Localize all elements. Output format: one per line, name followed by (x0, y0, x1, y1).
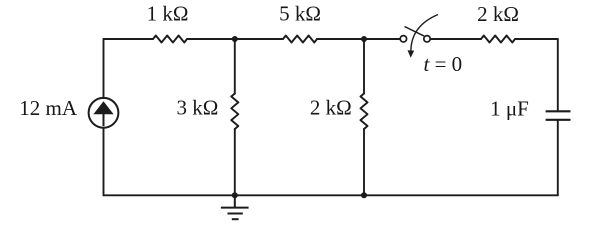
svg-text:12 mA: 12 mA (19, 96, 78, 120)
svg-text:1 kΩ: 1 kΩ (147, 2, 189, 26)
svg-text:1 μF: 1 μF (490, 97, 529, 121)
svg-text:2 kΩ: 2 kΩ (310, 96, 352, 120)
svg-text:3 kΩ: 3 kΩ (176, 96, 218, 120)
svg-text:5 kΩ: 5 kΩ (279, 1, 321, 25)
svg-text:t = 0: t = 0 (424, 52, 463, 76)
svg-text:2 kΩ: 2 kΩ (477, 2, 519, 26)
